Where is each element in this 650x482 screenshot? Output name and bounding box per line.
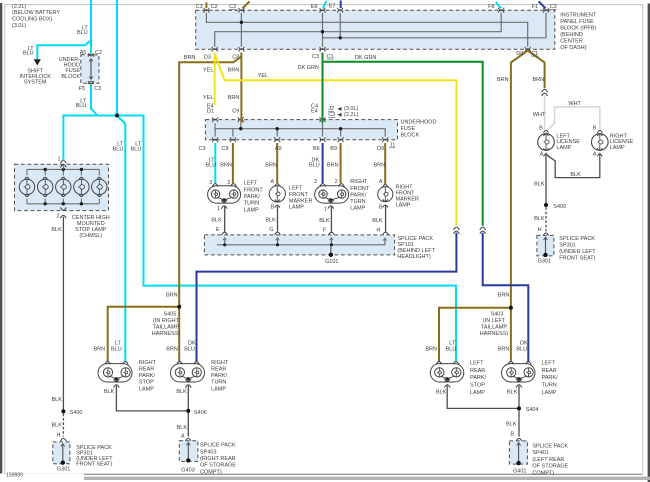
svg-text:1: 1: [57, 156, 60, 162]
svg-text:REAR: REAR: [211, 367, 226, 373]
svg-text:E7: E7: [329, 4, 336, 10]
svg-text:BRN: BRN: [94, 346, 106, 352]
svg-text:BLU: BLU: [23, 51, 34, 57]
svg-text:H: H: [538, 227, 542, 233]
svg-text:(RIGHT REAR: (RIGHT REAR: [200, 456, 236, 462]
svg-text:WHT: WHT: [533, 112, 546, 118]
svg-text:HARNESS): HARNESS): [152, 331, 181, 337]
svg-text:BLK: BLK: [176, 389, 187, 395]
svg-text:BRN: BRN: [533, 77, 545, 83]
svg-text:PARK/: PARK/: [542, 375, 559, 381]
svg-text:MARKER: MARKER: [289, 198, 313, 204]
svg-text:BRN: BRN: [498, 293, 510, 299]
svg-text:SP301: SP301: [559, 243, 576, 249]
svg-text:(IN LEFT: (IN LEFT: [483, 318, 506, 324]
svg-text:MOUNTED: MOUNTED: [77, 221, 105, 227]
svg-text:BLOCK: BLOCK: [401, 132, 420, 138]
svg-text:C2: C2: [211, 4, 218, 10]
svg-text:(IN RIGHT: (IN RIGHT: [153, 318, 180, 324]
svg-text:BRN: BRN: [166, 346, 178, 352]
svg-text:CENTER: CENTER: [560, 38, 583, 44]
svg-text:BRN: BRN: [265, 162, 277, 168]
svg-text:BRN: BRN: [220, 162, 232, 168]
svg-text:REAR: REAR: [542, 368, 557, 374]
svg-text:LEFT: LEFT: [542, 360, 556, 366]
svg-text:PANEL FUSE: PANEL FUSE: [560, 19, 594, 25]
svg-text:REAR: REAR: [470, 368, 485, 374]
svg-text:S405: S405: [164, 312, 177, 318]
svg-text:PARK/: PARK/: [470, 375, 487, 381]
svg-text:H: H: [57, 432, 61, 438]
svg-text:1: 1: [217, 206, 220, 212]
svg-text:LAMP: LAMP: [350, 206, 365, 212]
svg-text:2: 2: [227, 180, 230, 186]
svg-text:C3: C3: [196, 4, 203, 10]
svg-text:2: 2: [335, 179, 338, 185]
svg-text:TURN: TURN: [244, 201, 259, 207]
svg-text:C9: C9: [222, 146, 229, 152]
svg-text:BLOCK (IPFB): BLOCK (IPFB): [560, 26, 596, 32]
svg-text:BLK: BLK: [372, 218, 383, 224]
svg-text:F8: F8: [488, 4, 494, 10]
svg-text:BLK: BLK: [506, 421, 517, 427]
svg-text:G403: G403: [181, 468, 194, 474]
svg-text:BLK: BLK: [51, 227, 62, 233]
svg-text:B9: B9: [330, 146, 337, 152]
svg-text:LAMP: LAMP: [556, 145, 571, 151]
svg-text:WHT: WHT: [568, 101, 581, 107]
svg-text:LAMP: LAMP: [211, 386, 226, 392]
svg-text:BLK: BLK: [507, 390, 518, 396]
svg-text:E6: E6: [311, 4, 318, 10]
svg-text:D1: D1: [207, 109, 214, 115]
svg-text:G301: G301: [538, 258, 551, 264]
svg-text:S403: S403: [491, 312, 504, 318]
svg-text:B: B: [593, 126, 597, 132]
svg-text:BRN: BRN: [228, 95, 240, 101]
svg-text:STOP LAMP: STOP LAMP: [75, 227, 107, 233]
svg-text:TAILLAMP: TAILLAMP: [481, 325, 508, 331]
svg-text:(UNDER LEFT: (UNDER LEFT: [559, 249, 596, 255]
svg-text:BLU: BLU: [184, 346, 195, 352]
svg-text:LAMP: LAMP: [139, 386, 154, 392]
svg-text:BLU: BLU: [111, 346, 122, 352]
svg-text:C2: C2: [95, 50, 102, 56]
svg-text:C3: C3: [199, 146, 206, 152]
svg-text:COMPT): COMPT): [532, 470, 554, 476]
svg-text:TURN: TURN: [211, 380, 226, 386]
svg-text:SPLICE PACK: SPLICE PACK: [559, 236, 595, 242]
svg-text:LEFT: LEFT: [244, 181, 258, 187]
svg-text:159999: 159999: [6, 473, 23, 479]
svg-text:3: 3: [314, 179, 317, 185]
svg-text:TAILLAMP: TAILLAMP: [153, 325, 180, 331]
svg-text:OF DASH): OF DASH): [560, 45, 586, 51]
svg-text:C1: C1: [327, 54, 334, 60]
svg-text:YEL: YEL: [203, 95, 213, 101]
svg-text:A5: A5: [80, 50, 87, 56]
svg-text:LAMP: LAMP: [244, 207, 259, 213]
svg-text:BLK: BLK: [570, 172, 581, 178]
svg-text:LAMP: LAMP: [396, 202, 411, 208]
svg-text:TURN: TURN: [350, 199, 365, 205]
svg-text:LAMP: LAMP: [289, 205, 304, 211]
svg-text:B: B: [379, 205, 383, 211]
svg-text:PARK/: PARK/: [350, 192, 367, 198]
svg-text:B6: B6: [313, 146, 320, 152]
svg-text:RIGHT: RIGHT: [139, 360, 157, 366]
svg-text:SYSTEM: SYSTEM: [24, 80, 47, 86]
svg-text:G: G: [269, 227, 273, 233]
svg-text:REAR: REAR: [139, 367, 154, 373]
svg-text:CENTER HIGH: CENTER HIGH: [72, 215, 110, 221]
svg-text:S406: S406: [194, 410, 207, 416]
svg-text:C3: C3: [550, 4, 557, 10]
svg-text:G301: G301: [57, 467, 70, 473]
svg-text:F1: F1: [532, 4, 538, 10]
svg-text:BRN: BRN: [184, 55, 196, 61]
svg-text:PARK/: PARK/: [211, 373, 228, 379]
svg-text:UNDERHOOD: UNDERHOOD: [401, 119, 437, 125]
svg-text:(2.2L): (2.2L): [12, 4, 27, 10]
svg-text:SPLICE PACK: SPLICE PACK: [200, 443, 236, 449]
svg-text:A: A: [540, 152, 544, 158]
svg-text:FRONT: FRONT: [244, 187, 264, 193]
svg-text:C2: C2: [229, 4, 236, 10]
svg-text:YEL: YEL: [258, 73, 268, 79]
svg-text:2: 2: [56, 214, 59, 220]
svg-text:E4: E4: [311, 109, 318, 115]
svg-text:TURN: TURN: [542, 383, 557, 389]
svg-text:LAMP: LAMP: [542, 390, 557, 396]
svg-text:BRN: BRN: [498, 346, 510, 352]
svg-text:(BEHIND: (BEHIND: [560, 32, 583, 38]
svg-text:C9: C9: [232, 108, 239, 114]
svg-text:FRONT SEAT): FRONT SEAT): [76, 462, 112, 468]
svg-text:D9: D9: [377, 146, 384, 152]
svg-text:PARK/: PARK/: [139, 373, 156, 379]
svg-text:(LEFT REAR: (LEFT REAR: [532, 457, 564, 463]
svg-text:PARK/: PARK/: [244, 194, 261, 200]
svg-text:C3: C3: [94, 86, 101, 92]
svg-text:D3: D3: [204, 54, 211, 60]
svg-text:S404: S404: [526, 407, 539, 413]
svg-text:BRN: BRN: [374, 162, 386, 168]
svg-text:B: B: [271, 205, 275, 211]
svg-text:HARNESS): HARNESS): [480, 331, 509, 337]
svg-text:BRN: BRN: [327, 162, 339, 168]
svg-text:F5: F5: [79, 86, 85, 92]
svg-text:STOP: STOP: [470, 383, 485, 389]
svg-text:BLK: BLK: [211, 217, 222, 223]
svg-text:BLK: BLK: [534, 216, 545, 222]
svg-text:(CHMSL): (CHMSL): [79, 233, 102, 239]
svg-text:SPLICE PACK: SPLICE PACK: [532, 444, 568, 450]
svg-text:BLU: BLU: [131, 147, 142, 153]
svg-text:LAMP: LAMP: [610, 145, 625, 151]
svg-text:BLOCK: BLOCK: [61, 74, 80, 80]
svg-text:S400: S400: [553, 204, 566, 210]
svg-text:FRONT: FRONT: [289, 192, 309, 198]
svg-text:SP403: SP403: [200, 449, 217, 455]
svg-text:LAMP: LAMP: [470, 390, 485, 396]
svg-text:3: 3: [209, 180, 212, 186]
svg-text:A: A: [593, 152, 597, 158]
svg-text:(BELOW BATTERY: (BELOW BATTERY: [12, 10, 60, 16]
svg-text:COOLING BOX): COOLING BOX): [12, 17, 53, 23]
svg-text:OF STORAGE: OF STORAGE: [532, 464, 568, 470]
svg-text:(3.0L): (3.0L): [12, 23, 27, 29]
svg-text:E: E: [216, 227, 220, 233]
svg-text:D8: D8: [516, 51, 523, 57]
svg-text:A: A: [271, 179, 275, 185]
svg-text:RIGHT: RIGHT: [211, 360, 229, 366]
svg-text:B: B: [510, 432, 514, 438]
svg-text:FUSE: FUSE: [401, 126, 416, 132]
svg-text:S400: S400: [70, 410, 83, 416]
svg-text:(2.2L): (2.2L): [344, 112, 359, 118]
svg-text:BLU: BLU: [77, 30, 88, 36]
svg-text:YEL: YEL: [203, 68, 213, 74]
svg-text:BRN: BRN: [228, 68, 240, 74]
svg-text:BLK: BLK: [265, 217, 276, 223]
svg-text:C1: C1: [531, 51, 538, 57]
svg-text:BLU: BLU: [309, 162, 320, 168]
svg-text:COMPT): COMPT): [200, 469, 222, 475]
svg-text:1: 1: [324, 206, 327, 212]
svg-text:BLK: BLK: [177, 425, 188, 431]
svg-text:RIGHT: RIGHT: [350, 179, 368, 185]
svg-text:C8: C8: [232, 54, 239, 60]
svg-text:G401: G401: [513, 469, 526, 475]
svg-text:J1: J1: [390, 143, 396, 149]
svg-text:DK GRN: DK GRN: [298, 65, 319, 71]
svg-text:BLK: BLK: [319, 218, 330, 224]
svg-text:OF STORAGE: OF STORAGE: [200, 463, 236, 469]
svg-text:FRONT SEAT): FRONT SEAT): [559, 255, 595, 261]
svg-text:BLK: BLK: [52, 397, 63, 403]
svg-text:HEADLIGHT): HEADLIGHT): [397, 254, 430, 260]
svg-text:C3: C3: [328, 112, 335, 118]
svg-text:A: A: [379, 179, 383, 185]
svg-text:H: H: [376, 227, 380, 233]
svg-text:LEFT: LEFT: [289, 186, 303, 192]
svg-text:C3: C3: [312, 54, 319, 60]
svg-text:A9: A9: [275, 146, 282, 152]
svg-text:BRN: BRN: [166, 293, 178, 299]
svg-text:BLK: BLK: [534, 181, 545, 187]
svg-text:SP401: SP401: [532, 450, 549, 456]
svg-text:G101: G101: [325, 259, 338, 265]
svg-text:BRN: BRN: [497, 77, 509, 83]
svg-text:INSTRUMENT: INSTRUMENT: [560, 13, 597, 19]
svg-text:BLU: BLU: [446, 346, 457, 352]
svg-text:LEFT: LEFT: [470, 360, 484, 366]
svg-text:DK GRN: DK GRN: [355, 55, 376, 61]
svg-text:BLU: BLU: [516, 346, 527, 352]
svg-text:BLK: BLK: [104, 389, 115, 395]
svg-text:BLK: BLK: [436, 390, 447, 396]
svg-text:STOP: STOP: [139, 380, 154, 386]
svg-text:BLK: BLK: [52, 423, 63, 429]
svg-text:BLU: BLU: [76, 103, 87, 109]
svg-text:FRONT: FRONT: [350, 186, 370, 192]
svg-text:B: B: [539, 126, 543, 132]
svg-text:BLU: BLU: [206, 162, 217, 168]
svg-text:BLU: BLU: [113, 147, 124, 153]
svg-text:A: A: [181, 433, 185, 439]
svg-text:BRN: BRN: [425, 346, 437, 352]
